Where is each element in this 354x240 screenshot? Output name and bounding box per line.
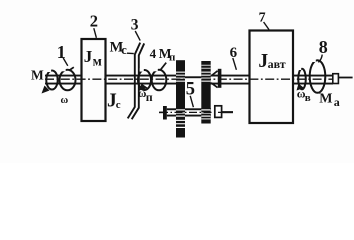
- svg-text:ω: ω: [61, 95, 69, 106]
- svg-text:3: 3: [131, 17, 139, 34]
- svg-text:4: 4: [150, 46, 157, 61]
- svg-text:5: 5: [186, 80, 195, 100]
- svg-text:1: 1: [57, 42, 66, 62]
- svg-text:6: 6: [230, 45, 238, 61]
- svg-text:п: п: [146, 90, 153, 104]
- svg-text:7: 7: [259, 10, 266, 25]
- svg-text:a: a: [334, 95, 340, 109]
- svg-text:J: J: [84, 47, 93, 66]
- svg-text:м: м: [93, 54, 102, 69]
- svg-text:2: 2: [90, 12, 98, 31]
- svg-text:авт: авт: [268, 57, 286, 71]
- svg-text:8: 8: [319, 37, 328, 57]
- svg-text:c: c: [116, 99, 121, 111]
- svg-text:в: в: [305, 92, 311, 104]
- svg-text:M: M: [31, 67, 44, 82]
- svg-text:c: c: [121, 43, 127, 57]
- svg-text:п: п: [169, 51, 176, 63]
- svg-text:M: M: [319, 92, 332, 107]
